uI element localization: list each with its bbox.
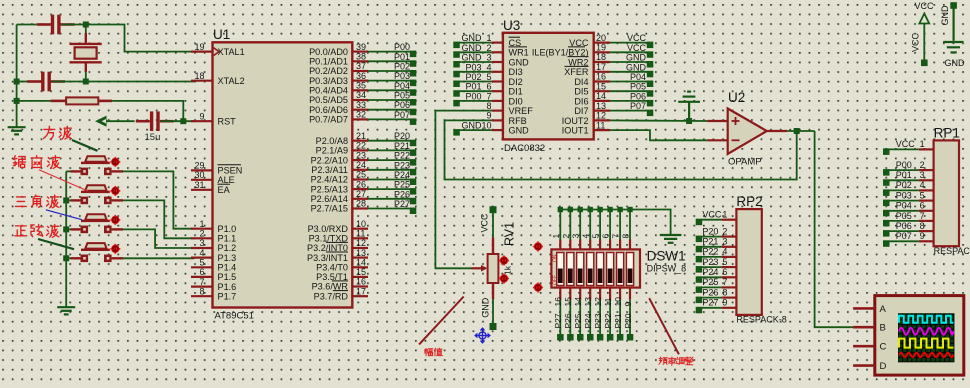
- svg-text:22: 22: [356, 141, 366, 151]
- push button S1: [71, 156, 124, 175]
- wire P25 to RP2 pin 7: [702, 286, 722, 288]
- arrow terminal RST: [95, 116, 107, 127]
- svg-text:RV1: RV1: [503, 222, 517, 246]
- svg-text:U3: U3: [503, 18, 520, 33]
- leader line pinlv tiaozheng: [649, 298, 679, 354]
- svg-text:VCC: VCC: [627, 43, 647, 53]
- net terminal P04 (U3 pin 16): [647, 81, 654, 88]
- DIP switch DSW1 element 6: [607, 253, 614, 286]
- svg-text:XTAL2: XTAL2: [218, 76, 245, 86]
- wire C2 to XTAL2: [52, 81, 195, 83]
- svg-text:P2.5/A13: P2.5/A13: [311, 184, 348, 194]
- svg-text:GND: GND: [462, 33, 483, 43]
- net terminal P02 (U3 pin 5): [453, 81, 460, 88]
- net terminal P26 (DSW1): [567, 334, 574, 341]
- pin 15 DI5 of U3: [594, 90, 610, 92]
- push button S2: [71, 185, 124, 204]
- svg-text:A: A: [880, 304, 887, 315]
- net terminal P06: [410, 109, 417, 116]
- svg-text:3: 3: [920, 170, 925, 180]
- pin 19 XTAL1 of U1: [191, 50, 213, 52]
- svg-text:P24: P24: [583, 313, 593, 328]
- pin 9 of RP1: [919, 240, 934, 242]
- pin 8 VREF of U3: [492, 109, 503, 111]
- pin top stub DSW1 element 8: [629, 240, 631, 250]
- wire U3 pin 10 to net GND: [460, 129, 492, 131]
- net terminal P06 (U3 pin 14): [647, 100, 654, 107]
- svg-text:P2.0/A8: P2.0/A8: [316, 136, 348, 146]
- pin 10 GND of U3: [492, 129, 503, 131]
- wire VCC to RP1 pin 1: [889, 148, 919, 150]
- pin bottom stub DSW1 element 7: [619, 288, 621, 300]
- svg-text:D: D: [880, 361, 887, 372]
- svg-text:DI3: DI3: [509, 67, 523, 77]
- junction DSW1 bus 3: [578, 207, 583, 212]
- wire P2.2/A10 to net P22: [368, 159, 410, 161]
- junction C1/crystal node: [83, 22, 89, 28]
- svg-text:P1.4: P1.4: [218, 263, 237, 273]
- svg-text:17: 17: [596, 62, 606, 72]
- wire C3 to RST pin: [161, 120, 195, 122]
- wire U3 pin 2 to net GND: [460, 51, 492, 53]
- svg-text:P3.0/RXD: P3.0/RXD: [308, 224, 349, 234]
- net terminal VCC (top right): [921, 60, 928, 67]
- pin 9 RST of U1: [191, 120, 213, 122]
- DIP switch DSW1 element 4: [587, 253, 594, 286]
- net terminal VCC (RP2): [696, 219, 703, 226]
- wire rail to S2: [66, 199, 70, 201]
- svg-text:10: 10: [356, 219, 366, 229]
- svg-text:7: 7: [920, 211, 925, 221]
- svg-text:9: 9: [199, 111, 204, 121]
- wire S3 to P1.2: [123, 229, 195, 248]
- svg-text:P21: P21: [702, 237, 718, 247]
- svg-text:15: 15: [356, 267, 366, 277]
- wire U3 pin 18 to net GND: [610, 61, 647, 63]
- junction DSW1 bus 8: [627, 207, 632, 212]
- svg-text:P2.3/A11: P2.3/A11: [311, 165, 348, 175]
- svg-text:11: 11: [596, 120, 605, 130]
- pin 21 P2.0/A8 of U1: [352, 140, 368, 142]
- svg-text:P03: P03: [896, 190, 912, 200]
- svg-text:P22: P22: [394, 151, 410, 161]
- svg-text:P24: P24: [702, 267, 718, 277]
- power symbol GND (top right): [943, 6, 963, 52]
- pin top stub DSW1 element 6: [609, 240, 611, 250]
- svg-text:6: 6: [199, 267, 204, 277]
- pin 14 DI6 of U3: [594, 100, 610, 102]
- ground buttons: [57, 307, 75, 314]
- net terminal P24: [410, 179, 417, 186]
- wire U3 pin 7 to net P00: [460, 100, 492, 102]
- wire U3 pin 17 to net GND: [610, 71, 647, 73]
- pin 9 of RP2: [722, 307, 737, 309]
- net terminal GND (U3 pin 17): [647, 71, 654, 78]
- pin 6 of RP1: [919, 210, 934, 212]
- net terminal P27 (DSW1): [557, 334, 564, 341]
- waveform channel D (red sine): [899, 353, 954, 357]
- wire opamp output: [787, 130, 814, 132]
- net terminal P26: [410, 198, 417, 205]
- svg-text:P23: P23: [702, 257, 718, 267]
- svg-text:16: 16: [596, 72, 606, 82]
- wire rail to R1: [17, 100, 51, 102]
- pin B input stub of oscilloscope: [853, 326, 875, 329]
- wire U3 pin 6 to net P01: [460, 90, 492, 92]
- svg-text:13: 13: [356, 248, 366, 258]
- wire P2.7/A15 to net P27: [368, 208, 410, 210]
- svg-text:10: 10: [613, 297, 623, 307]
- pin 12 IOUT2 of U3: [594, 119, 610, 121]
- wire rail to S4: [66, 257, 70, 259]
- pin 13 P3.3/INT1 of U1: [352, 257, 368, 259]
- wire DSW1 bottom 3: [579, 300, 581, 335]
- wire left ground rail: [16, 25, 18, 128]
- svg-text:IOUT1: IOUT1: [562, 126, 589, 136]
- svg-text:VCC: VCC: [480, 213, 490, 233]
- net terminal P23 (RP2): [696, 266, 703, 273]
- svg-text:P1.0: P1.0: [218, 224, 237, 234]
- svg-text:14: 14: [596, 91, 606, 101]
- wire P20 to RP2 pin 2: [702, 236, 722, 238]
- net terminal P05 (U3 pin 15): [647, 90, 654, 97]
- pin 8 of RP1: [919, 230, 934, 232]
- svg-text:P07: P07: [630, 101, 646, 111]
- wire P0.6/AD6 to net P06: [368, 109, 410, 111]
- net terminal P21 (RP2): [696, 246, 703, 253]
- svg-text:9: 9: [486, 111, 491, 121]
- svg-text:P06: P06: [394, 100, 410, 110]
- wire U3 pin 15 to net P05: [610, 90, 647, 92]
- net terminal GND (RV1): [490, 323, 497, 330]
- red marker RV1 top: [499, 256, 509, 266]
- svg-text:GND: GND: [509, 126, 530, 136]
- svg-text:P24: P24: [394, 170, 410, 180]
- svg-text:P1.3: P1.3: [218, 253, 237, 263]
- svg-text:GND: GND: [626, 62, 647, 72]
- wire P06 to RP1 pin 8: [889, 230, 919, 232]
- svg-text:P20: P20: [394, 131, 410, 141]
- net terminal P03 (U3 pin 4): [453, 71, 460, 78]
- svg-text:19: 19: [194, 42, 204, 52]
- wire DSW1 top 2: [569, 210, 571, 240]
- wire node to crystal: [85, 25, 87, 34]
- pin 2 of RP2: [722, 236, 737, 238]
- pin bottom stub DSW1 element 5: [599, 288, 601, 300]
- svg-text:P3.7/RD: P3.7/RD: [314, 291, 349, 301]
- svg-text:DI2: DI2: [509, 77, 523, 87]
- net terminal P25 (RP2): [696, 286, 703, 293]
- wire U3 pin 3 to net GND: [460, 61, 492, 63]
- net terminal P25 (DSW1): [577, 334, 584, 341]
- svg-text:DI5: DI5: [574, 87, 588, 97]
- svg-text:33: 33: [356, 100, 366, 110]
- wire rail to S3: [66, 228, 70, 230]
- svg-text:24: 24: [356, 160, 366, 170]
- op-amp U2 plus symbol: [732, 117, 740, 125]
- svg-text:P2.6/A14: P2.6/A14: [311, 194, 348, 204]
- svg-text:10: 10: [481, 121, 491, 131]
- pin output stub of U2: [767, 130, 787, 132]
- svg-text:23: 23: [356, 150, 366, 160]
- wire DSW1 top 4: [589, 210, 591, 240]
- svg-text:16: 16: [356, 277, 366, 287]
- svg-text:6: 6: [486, 82, 491, 92]
- svg-text:P25: P25: [394, 180, 410, 190]
- svg-text:P00: P00: [465, 91, 481, 101]
- svg-text:ALE: ALE: [218, 175, 235, 185]
- pin 28 P2.7/A15 of U1: [352, 207, 368, 209]
- svg-text:P27: P27: [702, 298, 718, 308]
- wire S1 to P1.0: [123, 171, 195, 228]
- svg-text:DAC0832: DAC0832: [504, 143, 545, 154]
- DIP switch DSW1 element 5: [597, 253, 604, 286]
- wire P05 to RP1 pin 7: [889, 220, 919, 222]
- leader line zhengxianbo: [38, 239, 74, 249]
- svg-text:25: 25: [356, 170, 366, 180]
- svg-text:2: 2: [486, 43, 491, 53]
- wire P0.1/AD1 to net P01: [368, 60, 410, 62]
- pin 12 P3.2/INT0 of U1: [352, 247, 368, 249]
- net terminal P24 (RP2): [696, 276, 703, 283]
- wire P2.5/A13 to net P25: [368, 188, 410, 190]
- annotation label sanjiaobo (triangle wave): [15, 197, 26, 207]
- svg-text:6: 6: [722, 267, 727, 277]
- svg-text:4: 4: [920, 180, 925, 190]
- svg-text:30: 30: [194, 170, 204, 180]
- wire VREF to RV1 wiper: [435, 111, 491, 269]
- svg-text:1: 1: [551, 234, 561, 239]
- svg-text:IOUT2: IOUT2: [562, 116, 589, 126]
- pin 1 VCC of RP2: [722, 219, 737, 221]
- pin top stub DSW1 element 1: [559, 240, 561, 250]
- net terminal P06 (RP1): [883, 230, 890, 237]
- svg-text:32: 32: [356, 110, 366, 120]
- net terminal P00 (U3 pin 7): [453, 100, 460, 107]
- net terminal P21 (DSW1): [617, 334, 624, 341]
- push button S4: [71, 243, 124, 262]
- net terminal P07 (U3 pin 13): [647, 110, 654, 117]
- svg-text:4: 4: [199, 248, 204, 258]
- junction DSW1 bus 1: [558, 207, 563, 212]
- svg-text:8: 8: [486, 101, 491, 111]
- svg-text:P2.2/A10: P2.2/A10: [311, 155, 348, 165]
- svg-text:31: 31: [194, 180, 204, 190]
- svg-text:3: 3: [571, 234, 581, 239]
- svg-text:26: 26: [356, 179, 366, 189]
- svg-text:2: 2: [722, 226, 727, 236]
- pin top stub DSW1 element 5: [599, 240, 601, 250]
- wire DSW1 bottom 6: [609, 300, 611, 335]
- junction DSW1 bus 7: [617, 207, 622, 212]
- pin bottom stub DSW1 element 6: [609, 288, 611, 300]
- svg-text:P26: P26: [702, 287, 718, 297]
- svg-text:AT89C51: AT89C51: [215, 311, 254, 322]
- wire DSW1 common bus: [560, 210, 670, 236]
- svg-text:P23: P23: [593, 313, 603, 328]
- wire P21 to RP2 pin 3: [702, 246, 722, 248]
- wire RV1 to GND: [492, 299, 494, 325]
- svg-text:P21: P21: [613, 313, 623, 328]
- net terminal GND (U3 pin 10): [453, 129, 460, 136]
- svg-text:1: 1: [486, 33, 491, 43]
- svg-text:28: 28: [356, 199, 366, 209]
- net terminal VCC (U3 pin 19): [647, 51, 654, 58]
- pin bottom stub DSW1 element 3: [579, 288, 581, 300]
- pin 19 ILE(BY1/BY2) of U3: [594, 51, 610, 53]
- net terminal P05: [410, 99, 417, 106]
- svg-text:8: 8: [722, 287, 727, 297]
- crystal X1: [70, 33, 102, 72]
- svg-text:13: 13: [596, 101, 606, 111]
- potentiometer RV1: [472, 238, 499, 300]
- svg-text:GND: GND: [462, 53, 483, 63]
- svg-text:9: 9: [920, 231, 925, 241]
- wire DSW1 top 8: [629, 210, 631, 240]
- svg-text:5: 5: [486, 72, 491, 82]
- svg-text:27: 27: [356, 189, 366, 199]
- svg-text:ON: ON: [553, 254, 559, 262]
- net terminal GND (U3 pin 2): [453, 51, 460, 58]
- junction left rail / R1: [14, 98, 20, 104]
- svg-text:12: 12: [596, 111, 606, 121]
- pin 23 P2.2/A10 of U1: [352, 159, 368, 161]
- wire P23 to RP2 pin 5: [702, 266, 722, 268]
- junction rail / S3: [63, 226, 69, 232]
- net terminal P00: [410, 51, 417, 58]
- wire C1 left: [17, 24, 37, 26]
- annotation label fuzhi (amplitude): [425, 348, 433, 355]
- svg-text:P06: P06: [896, 221, 912, 231]
- svg-text:P07: P07: [896, 231, 912, 241]
- wire P2.3/A11 to net P23: [368, 169, 410, 171]
- pin top stub DSW1 element 3: [579, 240, 581, 250]
- net terminal P04: [410, 89, 417, 96]
- pin 3 of RP1: [919, 179, 934, 181]
- pin 35 P0.4/AD4 of U1: [352, 89, 368, 91]
- waveform channel B (magenta sine): [899, 328, 954, 335]
- junction rail / S4: [63, 255, 69, 261]
- DIP switch DSW1 body: [551, 249, 640, 287]
- svg-text:20: 20: [596, 33, 606, 43]
- svg-text:OFF: OFF: [553, 275, 559, 285]
- wire DSW1 bottom 5: [599, 300, 601, 335]
- svg-text:VCC: VCC: [702, 210, 722, 220]
- svg-text:7: 7: [199, 277, 204, 287]
- net terminal P07: [410, 118, 417, 125]
- wire P02 to RP1 pin 4: [889, 189, 919, 191]
- wire DSW1 bottom 2: [569, 300, 571, 335]
- junction XTAL2 node: [83, 79, 89, 85]
- pin 3 GND of U3: [492, 61, 503, 63]
- wire U3 pin 1 to net GND: [460, 42, 492, 44]
- net terminal P23: [410, 169, 417, 176]
- svg-text:P00: P00: [896, 160, 912, 170]
- svg-text:VCC: VCC: [911, 32, 921, 52]
- svg-text:P0.0/AD0: P0.0/AD0: [309, 47, 348, 57]
- net terminal P01: [410, 60, 417, 67]
- pin 29 PSEN of U1: [191, 169, 213, 171]
- junction ground / opamp input wire: [686, 118, 692, 124]
- IC U3 DAC0832 body: [503, 33, 594, 140]
- wire P03 to RP1 pin 5: [889, 200, 919, 202]
- svg-text:1: 1: [920, 139, 925, 149]
- wire C1 to node: [62, 24, 86, 26]
- svg-text:3: 3: [199, 238, 204, 248]
- wire P2.6/A14 to net P26: [368, 198, 410, 200]
- wire P01 to RP1 pin 3: [889, 179, 919, 181]
- svg-text:XFER: XFER: [564, 67, 589, 77]
- wire button ground rail: [65, 171, 67, 307]
- wire S4 to P1.3: [123, 257, 195, 259]
- red marker button S1: [110, 157, 120, 167]
- svg-text:VREF: VREF: [509, 106, 534, 116]
- svg-text:P02: P02: [896, 180, 912, 190]
- svg-text:5: 5: [591, 234, 601, 239]
- svg-text:DI4: DI4: [574, 77, 588, 87]
- wire P26 to RP2 pin 8: [702, 297, 722, 299]
- net terminal VCC (U3 pin 20): [647, 42, 654, 49]
- svg-text:13: 13: [583, 297, 593, 307]
- pin 25 P2.4/A12 of U1: [352, 178, 368, 180]
- svg-text:P3.3/INT1: P3.3/INT1: [307, 253, 348, 263]
- net terminal P02 (RP1): [883, 189, 890, 196]
- svg-text:DIPSW_8: DIPSW_8: [647, 264, 687, 274]
- net terminal P00 (RP1): [883, 169, 890, 176]
- wire P0.2/AD2 to net P02: [368, 70, 410, 72]
- op-amp U2 triangle: [728, 109, 767, 155]
- ground oscillator: [8, 127, 26, 134]
- pin 16 P3.6/WR of U1: [352, 285, 368, 287]
- svg-text:P1.2: P1.2: [218, 243, 237, 253]
- svg-text:P27: P27: [553, 313, 563, 328]
- pin 5 P1.4 of U1: [191, 266, 213, 268]
- wire P0.5/AD5 to net P05: [368, 99, 410, 101]
- origin marker (blue): [475, 328, 490, 343]
- svg-text:3: 3: [722, 237, 727, 247]
- wire DSW1 bottom 8: [629, 300, 631, 335]
- svg-text:RFB: RFB: [509, 116, 527, 126]
- wire IOUT2 to opamp non-inverting input: [610, 119, 707, 122]
- svg-text:P1.5: P1.5: [218, 272, 237, 282]
- wire opamp output to scope B: [815, 131, 854, 327]
- svg-text:18: 18: [194, 71, 204, 81]
- pin D input stub of oscilloscope: [853, 364, 875, 367]
- svg-text:11: 11: [356, 229, 365, 239]
- svg-text:OPAMP: OPAMP: [728, 157, 762, 168]
- pin 5 DI2 of U3: [492, 80, 503, 82]
- svg-text:P04: P04: [630, 72, 646, 82]
- svg-text:RESPACK-8: RESPACK-8: [736, 315, 786, 325]
- svg-text:RST: RST: [218, 116, 237, 126]
- wire DSW1 bottom 1: [559, 300, 561, 335]
- pin 17 XFER of U3: [594, 71, 610, 73]
- resistor R1: [51, 97, 112, 104]
- net terminal P01 (U3 pin 6): [453, 90, 460, 97]
- pin 6 P1.5 of U1: [191, 276, 213, 278]
- pin 16 DI4 of U3: [594, 80, 610, 82]
- net terminal P22: [410, 159, 417, 166]
- svg-text:5: 5: [722, 257, 727, 267]
- wire DSW1 top 5: [599, 210, 601, 240]
- svg-text:P01: P01: [896, 170, 912, 180]
- pin 17 P3.7/RD of U1: [352, 295, 368, 297]
- pin 3 of RP2: [722, 246, 737, 248]
- wire crystal to XTAL2 net: [85, 72, 87, 82]
- wire IOUT1 to opamp inverting input: [610, 130, 707, 140]
- net terminal GND (top right): [950, 2, 957, 9]
- pin 4 of RP1: [919, 189, 934, 191]
